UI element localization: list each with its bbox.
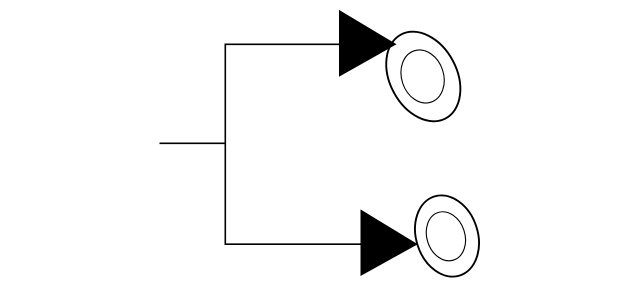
wire top branch [225, 43, 342, 45]
lamp L1 outer ring (top) [371, 19, 475, 134]
wire vertical bus [224, 44, 226, 246]
lamp L2 outer ring (bottom) [405, 187, 489, 285]
lamp L2 inner ring (bottom) [420, 207, 472, 266]
arrow/buffer A1 (top triangle) [339, 10, 397, 77]
lamp L1 inner ring (top) [394, 44, 451, 108]
wire input (left stub) [160, 142, 226, 144]
wire bottom branch [225, 243, 363, 245]
arrow/buffer A2 (bottom triangle) [361, 209, 418, 276]
